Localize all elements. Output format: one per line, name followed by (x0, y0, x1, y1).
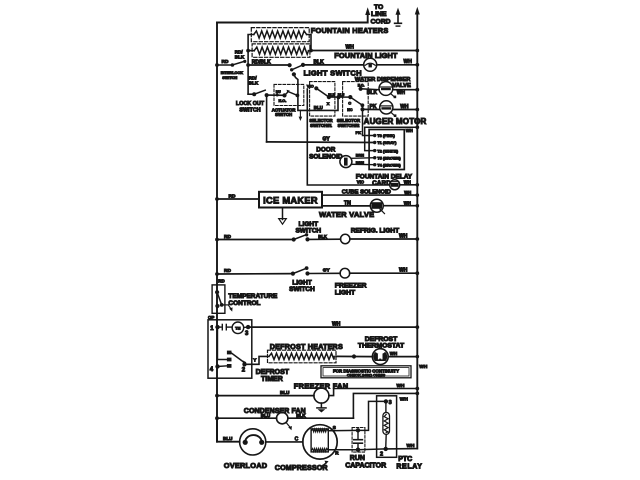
wire heater left connector RD/BLK (246, 35, 254, 67)
motor timer TM (232, 322, 244, 334)
svg-text:WH: WH (399, 234, 408, 240)
svg-text:WH: WH (400, 397, 409, 403)
wire BLK to refrig lamp (308, 234, 341, 239)
switch actuator (dashed box) (274, 84, 304, 105)
label DEFROST HEATERS (270, 342, 343, 351)
svg-text:X: X (327, 101, 330, 106)
note diagnostic continuity box (321, 366, 411, 378)
svg-text:SWITCH: SWITCH (275, 112, 292, 117)
svg-text:N.O.: N.O. (279, 99, 287, 103)
svg-text:PTC: PTC (398, 456, 412, 463)
svg-text:FOUNTAIN HEATERS: FOUNTAIN HEATERS (311, 26, 389, 35)
ground ice maker stem arrow (279, 208, 287, 225)
svg-text:WH: WH (400, 104, 409, 110)
svg-text:VALVE: VALVE (392, 83, 411, 89)
label BLK (fountain light wire) (314, 60, 325, 66)
node BLU contact (between selectors) (336, 93, 350, 99)
wire timer internal (1 to cam) (218, 327, 227, 359)
wire PK riser to T3 (356, 109, 375, 135)
svg-text:DEFROST HEATERS: DEFROST HEATERS (270, 342, 343, 351)
svg-text:3: 3 (389, 400, 392, 406)
label OVERLOAD (224, 461, 268, 470)
switch selector #1 (dashed box) (307, 82, 339, 117)
wire lock out to actuator switch (267, 94, 285, 96)
svg-text:BLK: BLK (235, 55, 245, 60)
relay PTC (box) (377, 396, 397, 458)
wire right rail WH (vertical bus) (415, 7, 420, 449)
node timer terminal 1 (210, 325, 219, 332)
label WATER DISPENSER VALVE (355, 77, 411, 89)
fan freezer (motor) (314, 388, 329, 403)
svg-text:RD: RD (229, 193, 236, 199)
switch refrig light (292, 233, 310, 241)
svg-text:AUGER MOTOR: AUGER MOTOR (364, 117, 427, 126)
label LIGHT SWITCH (freezer) (289, 279, 315, 293)
wire RD to ice maker (215, 193, 259, 201)
wire left rail RD (vertical bus) (216, 23, 218, 442)
svg-text:WH: WH (407, 443, 416, 449)
svg-text:INTERLOCK: INTERLOCK (221, 71, 243, 75)
node PTC terminal 2 (380, 447, 388, 458)
contact timer (motor contact) (218, 324, 233, 329)
wire overload to compressor C (266, 436, 303, 442)
svg-text:CHECK 240Ω OHMS: CHECK 240Ω OHMS (347, 373, 386, 378)
label LOCK OUT SWITCH (236, 101, 265, 113)
wire BRN to T5 (352, 153, 375, 158)
wire thermostat to WH rail (388, 351, 419, 358)
solenoid water dispenser valve (379, 82, 396, 99)
wire bottom bus to WH rail (358, 443, 417, 450)
svg-text:DEFROST: DEFROST (256, 369, 290, 376)
wire heater to defrost thermostat (336, 354, 372, 358)
wire TN to water valve (322, 201, 370, 207)
svg-text:BLK: BLK (318, 234, 327, 239)
svg-text:SWITCH#1: SWITCH#1 (310, 123, 332, 128)
svg-text:BLK: BLK (367, 90, 378, 96)
wire GY (lockout to T1) (267, 137, 375, 143)
label FOUNTAIN DELAY CARD (356, 174, 413, 188)
svg-text:FREEZER: FREEZER (335, 283, 367, 290)
lamp fountain light (364, 58, 377, 71)
svg-text:CARD: CARD (372, 180, 391, 187)
label TO LINE CORD (371, 4, 391, 26)
capacitor run (dashed box) (352, 428, 365, 453)
label DEFROST THERMOSTAT (358, 336, 405, 350)
contact timer cam lower (227, 364, 232, 368)
contact timer cam upper (227, 351, 232, 355)
svg-text:COMPRESSOR: COMPRESSOR (275, 463, 329, 472)
svg-text:NC: NC (347, 108, 353, 112)
label COMPRESSOR with arrow (275, 461, 329, 473)
svg-text:BLU: BLU (314, 105, 323, 110)
svg-text:T5 (BROWN): T5 (BROWN) (377, 155, 401, 160)
wire ice maker to WH rail (upper) (322, 190, 419, 197)
label FOUNTAIN HEATERS (311, 26, 389, 35)
wire GY to freezer lamp (308, 268, 341, 274)
svg-text:WH: WH (390, 351, 397, 356)
svg-text:PK: PK (356, 130, 362, 135)
svg-text:WH: WH (404, 200, 411, 205)
wire freezer lamp to WH rail (350, 268, 419, 276)
ground (line cord earth) (395, 8, 402, 27)
wire BLK to water dispenser valve (361, 89, 380, 96)
wire RD/BLK drop to lock out switch (248, 65, 259, 94)
label AUGER MOTOR (364, 117, 427, 126)
node arrow stub (harness drop) (299, 110, 303, 121)
svg-text:RD: RD (224, 268, 231, 274)
solenoid door (340, 156, 352, 168)
svg-text:WH: WH (397, 383, 406, 389)
label WATER VALVE (319, 210, 374, 219)
switch timer arm to terminal 2 (231, 352, 247, 366)
label RD (temp control) (218, 278, 224, 283)
label 2 (timer) (242, 367, 246, 373)
label FREEZER LIGHT (335, 283, 367, 297)
wire refrig lamp to WH rail (350, 234, 419, 241)
resistor defrost heater (dashed enclosure) (268, 350, 337, 363)
svg-text:LINE: LINE (371, 11, 387, 18)
svg-text:GY: GY (323, 268, 331, 274)
wire RD/BLK (to light switch) (248, 60, 290, 66)
wire heater right connector to WH rail (307, 35, 420, 53)
svg-text:TM: TM (235, 327, 240, 331)
wire compressor S to PTC 3 (328, 401, 386, 430)
lamp freezer light (340, 268, 350, 278)
wire BRN to T4 (352, 161, 375, 165)
overload protector (240, 429, 266, 455)
svg-text:CORD: CORD (371, 19, 391, 26)
wire BLK condenser fan to WH rail (288, 392, 419, 419)
wire auger motor to WH rail (393, 104, 419, 111)
compressor motor (303, 425, 337, 459)
svg-text:RD/BLK: RD/BLK (252, 60, 271, 66)
svg-text:VIO: VIO (307, 83, 314, 88)
wire compressor R to bottom bus (328, 450, 358, 456)
label LIGHT SWITCH (large) (304, 69, 362, 78)
svg-text:T1 (GRAY): T1 (GRAY) (377, 140, 397, 145)
label TEMPERATURE CONTROL (228, 293, 278, 307)
svg-text:RUN: RUN (350, 455, 365, 462)
thermostat defrost (372, 349, 389, 365)
ground freezer fan (317, 403, 326, 412)
wire timer 3 to WH rail (248, 321, 419, 329)
label WH (heater wire) (346, 45, 355, 51)
svg-text:BRN: BRN (356, 161, 364, 165)
svg-text:CAPACITOR: CAPACITOR (345, 463, 386, 470)
switch freezer light (291, 266, 310, 276)
wire Y (timer 2 to defrost heater) (245, 356, 268, 364)
wire water dispenser to WH rail (393, 88, 419, 96)
svg-text:N.O.: N.O. (358, 83, 365, 87)
wire RD to freezer light switch (215, 268, 293, 276)
svg-text:PK: PK (370, 104, 377, 110)
switch lock out (252, 90, 268, 97)
label CONDENSER FAN (244, 408, 306, 415)
svg-text:SWITCH: SWITCH (289, 286, 315, 293)
svg-text:RD: RD (224, 234, 231, 240)
svg-text:SWITCH: SWITCH (239, 107, 260, 113)
svg-text:T3 (PINK): T3 (PINK) (377, 133, 395, 138)
label SELECTOR SWITCH#1 (309, 118, 333, 128)
svg-text:TEMPERATURE: TEMPERATURE (228, 293, 278, 300)
timer defrost (box) (208, 320, 252, 378)
wire cube solenoid to WH rail (400, 180, 419, 187)
svg-text:SOLENOID: SOLENOID (309, 153, 343, 160)
contact timer cam middle (227, 358, 232, 362)
label FOUNTAIN LIGHT (334, 51, 398, 60)
wire water valve to WH rail (383, 200, 419, 207)
svg-text:BLU: BLU (261, 413, 271, 418)
svg-text:T4 (BROWN): T4 (BROWN) (377, 162, 401, 167)
svg-text:C: C (348, 101, 351, 106)
card fountain delay (box) (369, 130, 404, 170)
node timer terminal 4 (210, 364, 227, 373)
wire fountain light to WH rail (377, 59, 419, 67)
svg-text:TN: TN (344, 201, 351, 207)
svg-text:WH: WH (406, 128, 413, 133)
svg-text:BLK: BLK (296, 413, 306, 418)
svg-text:T2 (WHITE): T2 (WHITE) (377, 148, 398, 153)
svg-text:CONTROL: CONTROL (228, 300, 260, 307)
label ACTUATOR SWITCH (272, 108, 297, 118)
svg-text:LOCK OUT: LOCK OUT (236, 101, 265, 107)
wire BLK to fountain light (303, 64, 364, 66)
switch light switch (fountain light) (288, 63, 306, 77)
label CUBE SOLENOID (342, 190, 391, 196)
svg-text:SWITCH: SWITCH (222, 76, 237, 80)
lamp refrig light (341, 234, 350, 243)
svg-text:BLK: BLK (249, 80, 259, 85)
svg-text:LIGHT: LIGHT (335, 290, 356, 297)
svg-text:2: 2 (380, 451, 383, 457)
switch interlock (on RD feed) (215, 60, 246, 67)
svg-text:WH: WH (332, 321, 341, 327)
svg-text:FOUNTAIN LIGHT: FOUNTAIN LIGHT (334, 51, 398, 60)
control temperature (cold control) (212, 285, 233, 313)
wire freezer fan to WH rail (329, 383, 419, 396)
svg-text:BU: BU (276, 90, 281, 94)
svg-text:ICE MAKER: ICE MAKER (263, 196, 318, 206)
node timer terminal 3 (244, 325, 251, 337)
label LIGHT SWITCH (refrig) (295, 221, 321, 235)
fan condenser (motor) (277, 413, 292, 431)
wire RD to refrig light switch (215, 234, 294, 241)
svg-text:WH: WH (404, 190, 411, 195)
svg-text:TO: TO (374, 4, 383, 11)
box ice maker (259, 192, 322, 208)
resistor fountain heater H2 (lower, dashed enclosure) (252, 44, 310, 57)
svg-text:SWITCH#2: SWITCH#2 (338, 123, 360, 128)
svg-text:BRN: BRN (356, 153, 364, 157)
svg-text:BLU: BLU (280, 390, 290, 395)
svg-text:C: C (295, 436, 299, 442)
svg-text:WH: WH (419, 364, 428, 370)
label SELECTOR SWITCH#2 (337, 118, 361, 128)
wire WH rail to T2 (365, 125, 419, 150)
svg-text:WH: WH (399, 268, 408, 274)
label PTC RELAY (396, 456, 422, 470)
svg-text:WH: WH (404, 59, 413, 65)
label DOOR SOLENOID (309, 147, 343, 161)
wire PK to auger motor (363, 104, 380, 110)
svg-text:BLU: BLU (223, 436, 233, 441)
resistor fountain heater H1 (upper, dashed enclosure) (251, 28, 309, 42)
svg-text:WH: WH (397, 90, 406, 96)
valve water (ice maker water valve) (370, 199, 384, 213)
label INTERLOCK SWITCH (221, 71, 243, 80)
svg-text:GY: GY (323, 137, 331, 143)
solenoid cube (390, 180, 400, 190)
label REFRIG. LIGHT (351, 227, 399, 234)
wire top feed to line cord (217, 7, 370, 22)
node PTC terminal 3 (384, 399, 392, 406)
wire lockout drop to GY (266, 95, 268, 142)
svg-text:WATER VALVE: WATER VALVE (319, 210, 374, 219)
label WH (right of rail) (419, 364, 428, 370)
svg-text:LIGHT SWITCH: LIGHT SWITCH (304, 69, 362, 78)
wire light switch drop (VIO/BLU path) (294, 74, 338, 110)
label RD/BLK (heater left) (235, 50, 245, 60)
svg-text:OVERLOAD: OVERLOAD (224, 461, 268, 470)
motor auger (valve symbol) (380, 101, 397, 117)
wire BLU to freezer fan (215, 390, 314, 397)
svg-text:RELAY: RELAY (396, 463, 422, 470)
label FREEZER FAN (294, 381, 349, 390)
svg-text:TIMER: TIMER (261, 376, 283, 383)
svg-text:WH: WH (346, 45, 355, 51)
svg-text:S: S (333, 425, 336, 430)
wire VIO riser to cube solenoid (307, 89, 390, 185)
resistor PTC element (383, 401, 390, 449)
label RUN CAPACITOR (345, 455, 386, 469)
svg-text:REFRIG. LIGHT: REFRIG. LIGHT (351, 227, 399, 234)
svg-text:THERMOSTAT: THERMOSTAT (358, 343, 405, 350)
svg-text:RD: RD (218, 278, 224, 283)
label RD (interlock) (222, 59, 229, 65)
wire BLU to condenser fan (215, 413, 276, 420)
wire rail bottom BLU to overload (217, 418, 240, 442)
svg-text:RD: RD (222, 59, 229, 65)
svg-text:VIO: VIO (357, 180, 365, 185)
switch selector #2 (dashed box) (343, 82, 369, 117)
svg-text:WH: WH (404, 180, 411, 185)
label DEFROST TIMER (256, 369, 290, 383)
label OP (208, 315, 214, 320)
